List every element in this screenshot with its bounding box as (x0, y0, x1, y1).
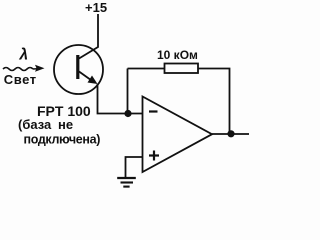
base bar (76, 55, 79, 79)
svg-text:не: не (58, 117, 73, 132)
node junction dot (124, 110, 131, 117)
wire feedback top left (128, 68, 166, 70)
resistor R 10 kOhm (165, 64, 199, 74)
wire feedback left vertical (127, 69, 129, 114)
wire noninverting input to ground (126, 157, 143, 178)
wire feedback top right (198, 69, 230, 134)
svg-text:+15: +15 (85, 0, 107, 15)
minus input sign (149, 110, 158, 112)
emitter with arrow (79, 72, 93, 82)
wire output (212, 133, 249, 135)
svg-text:λ: λ (19, 47, 29, 64)
ground (117, 177, 136, 179)
svg-text:(база: (база (18, 117, 52, 132)
wire emitter to node (98, 84, 143, 114)
svg-text:Свет: Свет (4, 72, 37, 87)
svg-text:подключена): подключена) (24, 133, 101, 147)
wire collector from +15 (79, 14, 98, 59)
plus input sign (149, 154, 159, 156)
phototransistor Q1 FPT 100 circle (54, 45, 103, 94)
output junction dot (227, 130, 234, 137)
op-amp U1 triangle (143, 97, 213, 173)
svg-text:10 кОм: 10 кОм (157, 48, 198, 62)
light wavy arrow (3, 68, 33, 71)
